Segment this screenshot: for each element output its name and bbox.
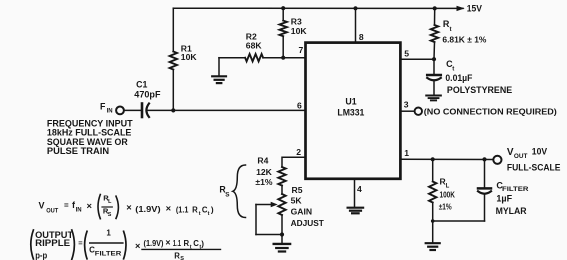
svg-text:5K: 5K — [291, 195, 303, 205]
node: rail/pin8 junction — [353, 6, 357, 10]
svg-text:×: × — [87, 200, 93, 211]
svg-text:IN: IN — [107, 108, 113, 114]
F_IN input terminal — [100, 101, 140, 114]
svg-text:t: t — [452, 66, 454, 73]
svg-text:IN: IN — [76, 208, 82, 214]
svg-text:t: t — [450, 26, 452, 33]
svg-text:±1%: ±1% — [255, 177, 272, 187]
formula 1 fraction bar and parens — [102, 206, 112, 208]
svg-text:R: R — [192, 205, 198, 214]
svg-text:V: V — [39, 201, 45, 211]
svg-text:R5: R5 — [292, 185, 303, 195]
svg-text:FULL-SCALE: FULL-SCALE — [507, 163, 561, 173]
resistor RL — [429, 159, 455, 242]
Vout open terminal — [493, 156, 501, 164]
node: rail/Rt junction — [433, 6, 437, 10]
svg-text:OUT: OUT — [514, 154, 528, 160]
svg-text:V: V — [507, 147, 514, 158]
svg-text:R4: R4 — [257, 156, 268, 166]
svg-text:×: × — [166, 202, 172, 213]
node: R2/R3/pin7 junction — [281, 56, 285, 60]
svg-text:U1: U1 — [345, 97, 356, 107]
capacitor Ct 0.01uF — [427, 59, 512, 95]
ground (under Ct) — [426, 96, 441, 101]
svg-text:(1.9V): (1.9V) — [135, 205, 161, 214]
svg-text:470pF: 470pF — [134, 90, 161, 100]
resistor R1 — [170, 8, 198, 110]
svg-text:±1%: ±1% — [439, 201, 452, 211]
svg-text:15V: 15V — [467, 4, 482, 14]
pin 4 stub — [354, 179, 356, 207]
node: pin5/Rt/Ct junction — [432, 57, 436, 61]
wire: pin 2 — [282, 157, 306, 167]
svg-text:3: 3 — [404, 100, 409, 110]
svg-text:(1.9V): (1.9V) — [144, 239, 164, 248]
svg-text:6: 6 — [297, 101, 302, 111]
R_S brace — [219, 165, 245, 218]
wire: pin 5 — [400, 58, 434, 60]
svg-text:S: S — [225, 192, 230, 199]
label Vout 10V FULL-SCALE — [507, 146, 561, 172]
wire: pin 7 — [283, 57, 305, 59]
potentiometer R5 (gain adjust) — [256, 185, 325, 243]
svg-text:×: × — [165, 238, 170, 248]
node: RL junction — [431, 157, 435, 161]
frequency input caption — [47, 118, 133, 156]
svg-text:×: × — [135, 241, 140, 251]
svg-text:4: 4 — [357, 184, 362, 194]
wire: +15V top rail — [173, 7, 463, 9]
wire: pin 3 — [400, 110, 414, 112]
svg-text:68K: 68K — [246, 41, 263, 51]
svg-text:(1.1: (1.1 — [176, 205, 189, 214]
resistor Rt — [431, 8, 487, 59]
svg-text:PULSE TRAIN: PULSE TRAIN — [47, 146, 110, 156]
15V supply arrow — [457, 6, 465, 11]
svg-text:OUT: OUT — [46, 209, 58, 215]
svg-text:FILTER: FILTER — [502, 186, 529, 193]
svg-text:(NO CONNECTION REQUIRED): (NO CONNECTION REQUIRED) — [424, 107, 557, 117]
node: rail/R3 junction — [281, 6, 285, 10]
svg-text:10K: 10K — [291, 26, 308, 36]
svg-text:F: F — [100, 101, 106, 111]
svg-text:100K: 100K — [440, 189, 456, 199]
resistor R4 — [255, 156, 285, 195]
svg-text:10K: 10K — [181, 52, 198, 62]
svg-text:0.01µF: 0.01µF — [445, 73, 472, 83]
svg-text:10V: 10V — [532, 146, 548, 157]
svg-text:t: t — [199, 211, 201, 217]
svg-text:1µF: 1µF — [496, 194, 512, 204]
pin 8 stub — [355, 8, 357, 42]
svg-text:1: 1 — [106, 229, 111, 238]
capacitor C1 470pF — [134, 80, 161, 117]
formula 2 parens and bars — [31, 230, 34, 259]
svg-text:×: × — [126, 201, 132, 212]
formula 2: output ripple — [35, 229, 204, 260]
ground (under R2 left end) — [212, 58, 226, 83]
svg-text:C1: C1 — [136, 80, 147, 90]
capacitor CFILTER 1uF — [431, 159, 529, 222]
svg-text:): ) — [201, 239, 204, 248]
svg-text:POLYSTYRENE: POLYSTYRENE — [447, 85, 512, 95]
formula 1: Vout = fin x (RL/RS) x (1.9V) x (1.1 RtCt) — [39, 194, 214, 218]
svg-text:L: L — [108, 199, 112, 205]
svg-text:t: t — [208, 211, 210, 217]
pin 3 open terminal — [415, 108, 422, 115]
node: CFILTER junction — [482, 157, 486, 161]
svg-text:): ) — [211, 206, 214, 215]
ground (under RL) — [426, 243, 440, 250]
wire: pin 6 (FIN line) — [147, 109, 305, 111]
svg-text:RIPPLE: RIPPLE — [35, 238, 70, 248]
svg-text:1.1: 1.1 — [173, 239, 182, 248]
svg-text:=: = — [64, 201, 69, 210]
svg-text:2: 2 — [296, 147, 301, 157]
svg-text:R: R — [184, 239, 190, 248]
svg-text:12K: 12K — [256, 167, 273, 177]
svg-text:S: S — [108, 212, 112, 218]
resistor R3 — [280, 8, 308, 58]
node: FIN/R1 junction — [171, 108, 175, 112]
svg-text:LM331: LM331 — [337, 108, 364, 118]
svg-text:8: 8 — [359, 32, 364, 42]
ground (under R5) — [274, 244, 290, 252]
svg-text:5: 5 — [404, 49, 409, 59]
svg-text:ADJUST: ADJUST — [291, 218, 325, 228]
svg-text:S: S — [180, 256, 184, 260]
svg-text:7: 7 — [299, 45, 304, 55]
svg-text:FILTER: FILTER — [95, 252, 122, 258]
svg-text:6.81K ± 1%: 6.81K ± 1% — [442, 35, 487, 44]
svg-text:C: C — [193, 239, 199, 248]
svg-text:GAIN: GAIN — [291, 207, 312, 217]
svg-text:p-p: p-p — [35, 250, 47, 260]
svg-text:MYLAR: MYLAR — [496, 206, 527, 216]
svg-text:=: = — [78, 238, 83, 247]
resistor R2 — [219, 31, 283, 61]
svg-text:1: 1 — [404, 148, 409, 158]
wire: pin 1 to Vout — [400, 158, 493, 160]
ground (pin 4) — [348, 208, 364, 214]
op-amp U1 LM331 box — [306, 43, 401, 179]
